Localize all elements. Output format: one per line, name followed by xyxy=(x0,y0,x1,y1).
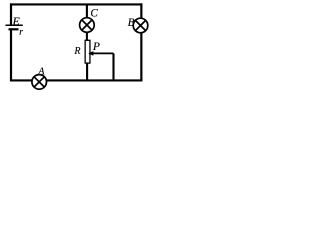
svg-text:R: R xyxy=(73,46,80,57)
svg-text:A: A xyxy=(37,67,45,78)
wire right xyxy=(140,3,142,81)
wire top xyxy=(10,3,142,5)
resistor R box xyxy=(85,40,90,63)
battery E short plate xyxy=(9,28,19,30)
wire left upper xyxy=(10,3,12,25)
svg-text:r: r xyxy=(19,27,23,38)
battery E long plate xyxy=(6,24,23,26)
svg-text:C: C xyxy=(90,7,98,19)
wire left lower xyxy=(10,29,12,81)
slider P arrow xyxy=(88,51,113,56)
lamp A xyxy=(32,75,47,90)
wire lamp C branch lower xyxy=(86,63,88,80)
wire bottom xyxy=(10,79,142,81)
svg-text:E: E xyxy=(12,14,21,28)
lamp B xyxy=(133,18,148,33)
svg-text:P: P xyxy=(92,41,100,53)
lamp C xyxy=(80,18,95,33)
svg-text:B: B xyxy=(128,17,135,29)
wire slider drop xyxy=(112,53,114,81)
wire lamp C branch upper xyxy=(86,4,88,40)
